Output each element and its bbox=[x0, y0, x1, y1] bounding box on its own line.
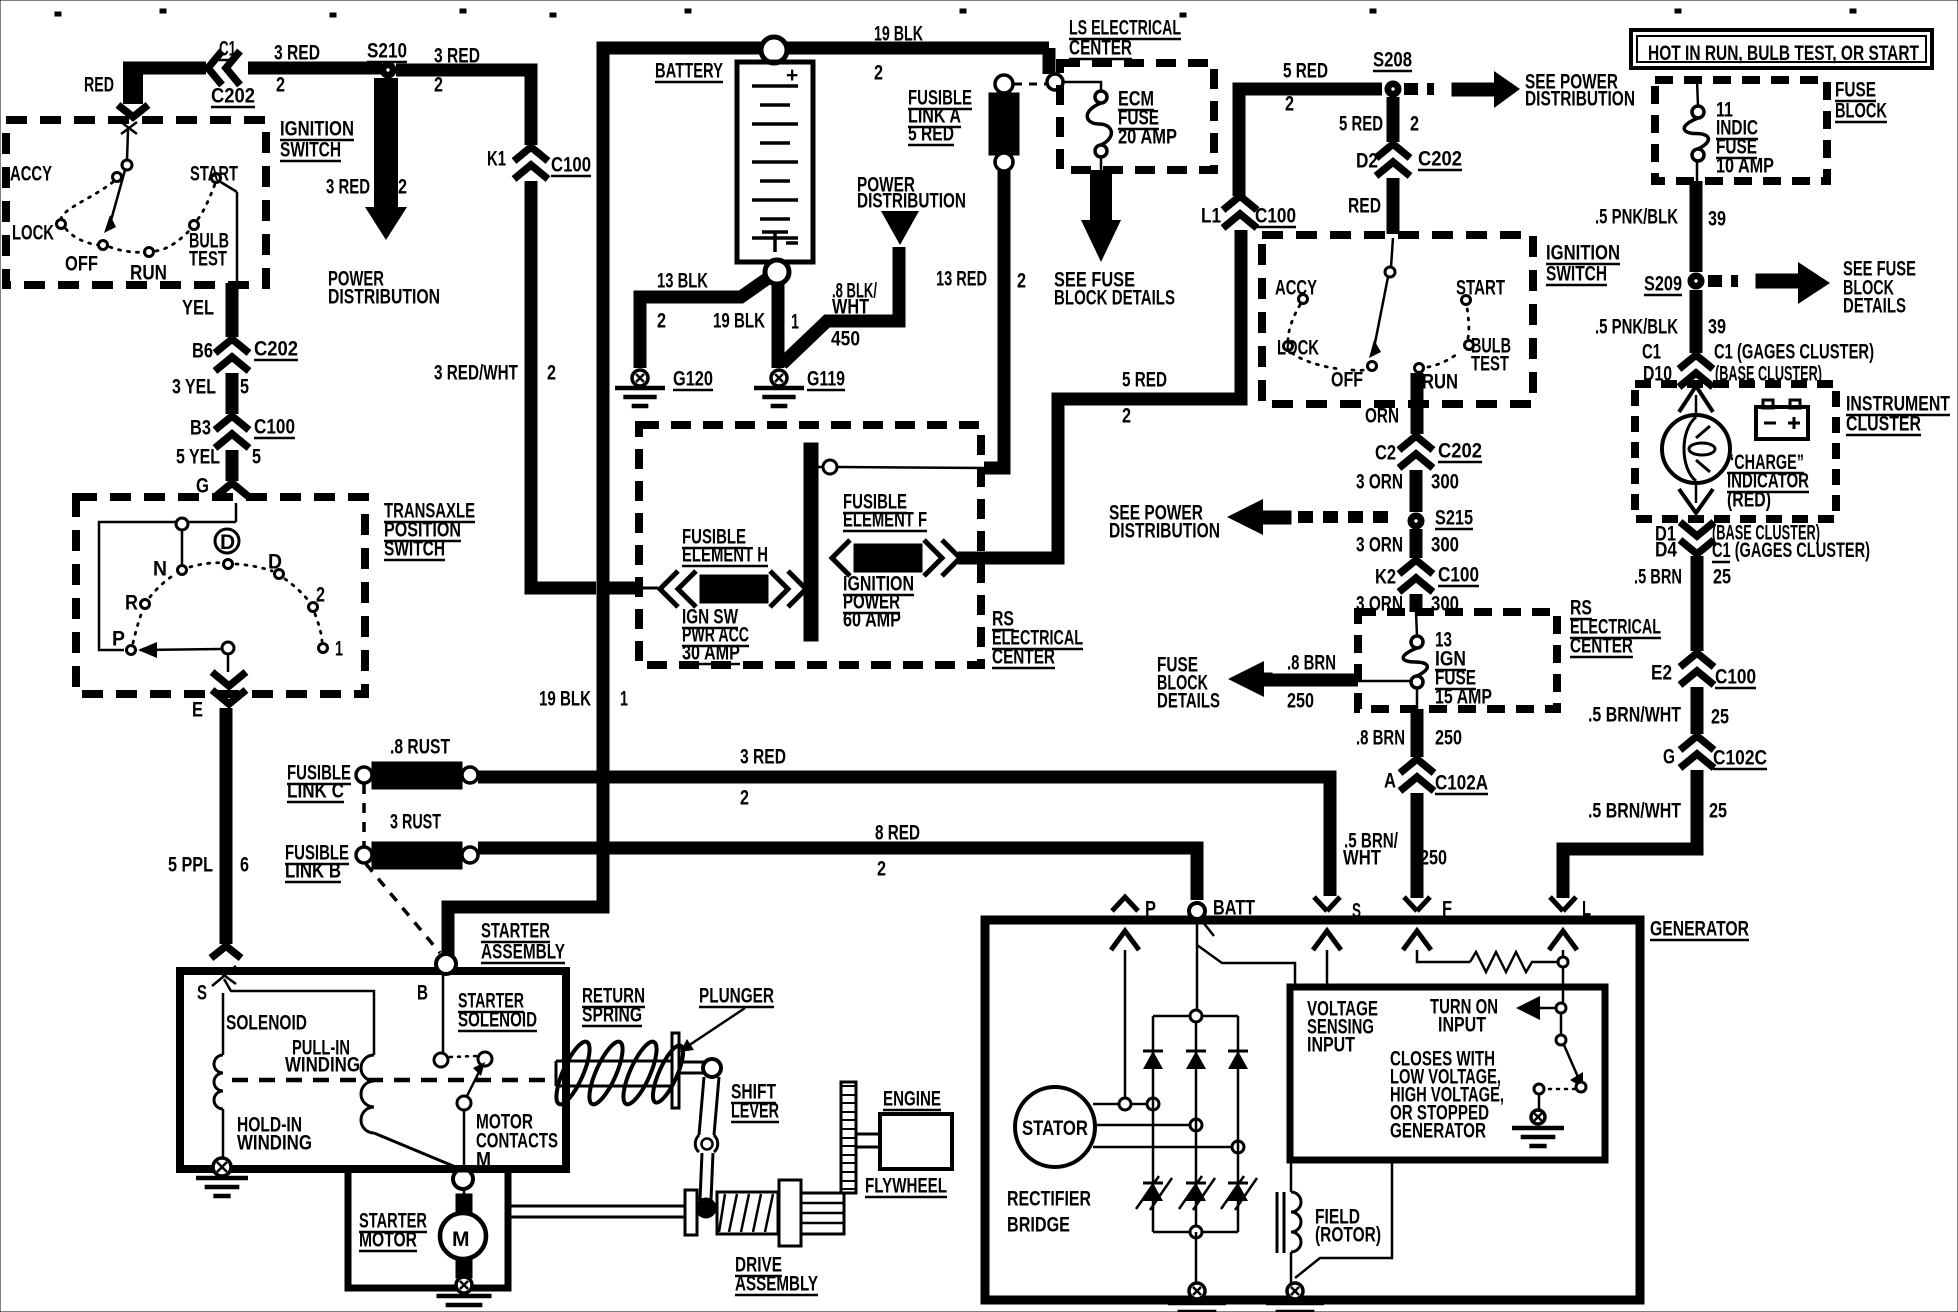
svg-text:C202: C202 bbox=[254, 338, 298, 361]
svg-text:DETAILS: DETAILS bbox=[1157, 690, 1220, 713]
svg-text:M: M bbox=[452, 1228, 470, 1251]
svg-text:20 AMP: 20 AMP bbox=[1118, 126, 1177, 149]
svg-text:GENERATOR: GENERATOR bbox=[1650, 918, 1749, 941]
svg-text:5 RED: 5 RED bbox=[1339, 113, 1383, 136]
label .8 BRN bbox=[1287, 652, 1336, 675]
L terminal lead and junction bbox=[1558, 950, 1568, 1003]
svg-text:GENERATOR: GENERATOR bbox=[1390, 1120, 1486, 1143]
fusible link A symbol bbox=[989, 75, 1019, 171]
svg-text:250: 250 bbox=[1420, 847, 1447, 870]
label 300 bbox=[1431, 534, 1459, 557]
svg-text:G120: G120 bbox=[673, 368, 713, 391]
label 3 ORN bbox=[1356, 471, 1403, 494]
svg-text:PLUNGER: PLUNGER bbox=[699, 985, 774, 1008]
svg-text:MOTOR: MOTOR bbox=[359, 1229, 417, 1252]
svg-text:3 YEL: 3 YEL bbox=[172, 376, 216, 399]
svg-text:C202: C202 bbox=[1418, 148, 1462, 171]
label C2 bbox=[1375, 442, 1396, 465]
generator box bbox=[985, 920, 1640, 1300]
svg-text:S: S bbox=[197, 982, 207, 1005]
label 2 bbox=[657, 310, 666, 333]
label 300 bbox=[1431, 593, 1459, 616]
label 2 bbox=[1410, 113, 1419, 136]
svg-text:(RED): (RED) bbox=[1727, 489, 1771, 512]
dashed stub from S208 bbox=[1404, 83, 1434, 95]
svg-text:2: 2 bbox=[877, 858, 886, 881]
label POWER DISTRIBUTION bbox=[857, 174, 915, 197]
svg-text:E: E bbox=[192, 699, 203, 722]
svg-text:2: 2 bbox=[276, 74, 285, 97]
label .8 RUST bbox=[390, 736, 450, 759]
svg-text:HOT IN RUN, BULB TEST, OR STA: HOT IN RUN, BULB TEST, OR START bbox=[1648, 42, 1919, 65]
label C1 / D10 bbox=[1642, 341, 1661, 364]
label RETURN SPRING bbox=[582, 985, 645, 1008]
dashed wire from fusible link A to LS electrical center bbox=[1014, 83, 1046, 86]
arrow see power distribution (right) bbox=[1452, 71, 1520, 108]
label 3 RED bbox=[434, 45, 480, 68]
label 25 bbox=[1713, 566, 1731, 589]
label SOLENOID bbox=[226, 1012, 307, 1035]
svg-text:B: B bbox=[417, 982, 428, 1005]
transaxle switch arm arrow to P bbox=[138, 642, 234, 658]
svg-text:3 RED/WHT: 3 RED/WHT bbox=[434, 362, 518, 385]
svg-text:OFF: OFF bbox=[1331, 369, 1363, 392]
label G119 bbox=[807, 368, 845, 391]
transaxle switch internal wiring bbox=[99, 503, 236, 650]
rectifier bridge rails bbox=[1153, 1010, 1238, 1282]
label LS ELECTRICAL CENTER bbox=[1069, 17, 1181, 40]
label VOLTAGE SENSING INPUT bbox=[1307, 998, 1378, 1021]
label 2 bbox=[1017, 270, 1026, 293]
svg-text:25: 25 bbox=[1713, 566, 1731, 589]
svg-text:TEST: TEST bbox=[189, 248, 227, 271]
label MOTOR CONTACTS M bbox=[476, 1111, 533, 1134]
terminal circle at LS center feed bbox=[1047, 74, 1063, 90]
solenoid internal feed wires bbox=[223, 979, 374, 1055]
label RUN bbox=[130, 262, 167, 285]
label 2 bbox=[877, 858, 886, 881]
svg-text:300: 300 bbox=[1431, 534, 1459, 557]
label 2 bbox=[316, 584, 325, 607]
label 250 bbox=[1435, 727, 1462, 750]
svg-text:C1 (GAGES CLUSTER): C1 (GAGES CLUSTER) bbox=[1714, 341, 1874, 364]
svg-text:LOCK: LOCK bbox=[1277, 337, 1319, 360]
lead from bus bar to 13 RED wire bbox=[818, 460, 986, 474]
svg-text:.5 BRN/WHT: .5 BRN/WHT bbox=[1588, 800, 1681, 823]
svg-text:K2: K2 bbox=[1375, 566, 1396, 589]
svg-text:ASSEMBLY: ASSEMBLY bbox=[735, 1273, 818, 1296]
label 13 RED bbox=[936, 268, 987, 291]
right ignition switch pivot and arm bbox=[1369, 238, 1395, 358]
label RED bbox=[1348, 195, 1381, 218]
generator S terminal bbox=[1313, 897, 1341, 950]
wire 13 RED from fusible link A to RS electrical center bbox=[984, 171, 1004, 468]
label S210 bbox=[367, 40, 407, 63]
svg-text:RED: RED bbox=[1348, 195, 1381, 218]
label C100 bbox=[551, 154, 591, 177]
svg-text:DETAILS: DETAILS bbox=[1843, 295, 1906, 318]
svg-text:STATOR: STATOR bbox=[1022, 1117, 1088, 1140]
svg-text:30 AMP: 30 AMP bbox=[682, 642, 740, 665]
splice S210 bbox=[380, 62, 396, 78]
svg-text:DISTRIBUTION: DISTRIBUTION bbox=[1109, 520, 1220, 543]
svg-text:FUSE: FUSE bbox=[1835, 79, 1876, 102]
label INSTRUMENT CLUSTER bbox=[1846, 393, 1950, 416]
svg-text:5: 5 bbox=[240, 376, 249, 399]
svg-text:OFF: OFF bbox=[65, 253, 98, 276]
svg-text:250: 250 bbox=[1287, 690, 1314, 713]
pull-in winding coil bbox=[361, 1055, 374, 1133]
starter M terminal circle bbox=[453, 1169, 473, 1189]
svg-text:25: 25 bbox=[1711, 706, 1729, 729]
svg-text:G: G bbox=[1663, 746, 1675, 769]
label D1 / D4 bbox=[1655, 523, 1676, 546]
label DRIVE ASSEMBLY bbox=[735, 1254, 782, 1277]
wire 5 RED from fusible element F to L1 C100 bbox=[958, 230, 1241, 558]
svg-text:3 ORN: 3 ORN bbox=[1356, 534, 1403, 557]
label G bbox=[1663, 746, 1675, 769]
svg-text:BLOCK DETAILS: BLOCK DETAILS bbox=[1054, 287, 1175, 310]
svg-text:RUN: RUN bbox=[130, 262, 167, 285]
label C1 bbox=[219, 38, 236, 61]
label 1 bbox=[620, 688, 628, 711]
wire .8 BRN to fuse block details arrow bbox=[1268, 674, 1358, 687]
label IGN SW PWR ACC 30 AMP bbox=[682, 606, 738, 629]
wire 5 PPL from E to starter S terminal bbox=[220, 708, 233, 944]
fusible link C symbol bbox=[356, 762, 478, 789]
label C202 bbox=[211, 85, 255, 108]
label RS ELECTRICAL CENTER bbox=[992, 608, 1014, 631]
svg-text:(ROTOR): (ROTOR) bbox=[1315, 1224, 1381, 1247]
cluster input chevron bbox=[1679, 386, 1713, 417]
connector B6 C202 bbox=[215, 339, 249, 371]
connector K2 C100 bbox=[1399, 560, 1433, 592]
rectifier diodes top row bbox=[1143, 1051, 1248, 1069]
wire YEL to B6 bbox=[226, 283, 239, 337]
arrow power distribution (battery area) bbox=[881, 211, 919, 245]
label BATT bbox=[1213, 897, 1255, 920]
turn-on input arrow bbox=[1516, 996, 1566, 1020]
svg-text:BRIDGE: BRIDGE bbox=[1007, 1214, 1070, 1237]
svg-text:E2: E2 bbox=[1651, 662, 1672, 685]
svg-text:+: + bbox=[786, 64, 798, 87]
wire RED from ignition switch to connector C1 bbox=[123, 62, 143, 104]
connector K1 C100 bbox=[514, 147, 548, 179]
regulator switch bbox=[1534, 1013, 1586, 1110]
connector D2 C202 bbox=[1376, 144, 1410, 176]
starter motor ground bbox=[437, 1296, 492, 1312]
label K2 bbox=[1375, 566, 1396, 589]
label FUSIBLE ELEMENT F bbox=[843, 491, 907, 514]
IGN fuse symbol bbox=[1416, 612, 1417, 636]
label SEE FUSE BLOCK DETAILS bbox=[1054, 269, 1135, 292]
fusible element F bbox=[832, 540, 960, 576]
transaxle position switch dashed box bbox=[76, 497, 365, 694]
label C100 bbox=[1255, 205, 1296, 228]
arrow to power distribution (down) bbox=[365, 207, 407, 240]
svg-text:.5 PNK/BLK: .5 PNK/BLK bbox=[1595, 206, 1678, 229]
svg-text:SOLENOID: SOLENOID bbox=[458, 1009, 537, 1032]
label .8 BRN bbox=[1356, 727, 1405, 750]
label (BASE CLUSTER) lower bbox=[1712, 522, 1820, 545]
label C1 (GAGES CLUSTER) lower bbox=[1712, 539, 1870, 562]
battery symbol bbox=[737, 62, 813, 262]
svg-text:STARTER: STARTER bbox=[481, 920, 550, 943]
connector C1 C202 bbox=[208, 51, 240, 85]
label 3 YEL bbox=[172, 376, 216, 399]
svg-text:DISTRIBUTION: DISTRIBUTION bbox=[1525, 88, 1635, 111]
splice S209 bbox=[1688, 273, 1704, 289]
svg-text:L: L bbox=[1582, 898, 1591, 921]
label .5 PNK/BLK bbox=[1595, 316, 1678, 339]
svg-text:C202: C202 bbox=[211, 85, 255, 108]
generator internal ground bbox=[1189, 1283, 1205, 1299]
svg-text:1: 1 bbox=[335, 638, 343, 661]
label FLYWHEEL bbox=[865, 1175, 947, 1198]
fuse block dashed box bbox=[1655, 80, 1827, 181]
lead into ECM fuse bbox=[1063, 82, 1101, 91]
svg-text:CENTER: CENTER bbox=[1570, 635, 1633, 658]
svg-text:LINK C: LINK C bbox=[287, 780, 344, 803]
svg-text:5 PPL: 5 PPL bbox=[168, 854, 213, 877]
label 6 bbox=[240, 854, 249, 877]
label FUSIBLE LINK A 5 RED bbox=[908, 87, 972, 110]
svg-text:.8 BRN: .8 BRN bbox=[1287, 652, 1336, 675]
wire from START contact to box exit bbox=[219, 181, 237, 282]
wire 5 RED from L1 up to S208 bbox=[1239, 89, 1382, 196]
svg-text:FLYWHEEL: FLYWHEEL bbox=[865, 1175, 947, 1198]
label FUSE BLOCK DETAILS (middle) bbox=[1157, 654, 1198, 677]
svg-text:SWITCH: SWITCH bbox=[1546, 263, 1607, 286]
label S208 bbox=[1373, 49, 1412, 72]
svg-text:C2: C2 bbox=[1375, 442, 1396, 465]
wire 19 BLK battery to LS electrical center bbox=[786, 42, 1049, 55]
svg-text:13 RED: 13 RED bbox=[936, 268, 987, 291]
svg-text:ACCY: ACCY bbox=[1275, 277, 1317, 300]
field rotor coil bbox=[1277, 1192, 1301, 1253]
connector A C102A bbox=[1400, 759, 1434, 791]
label SEE FUSE BLOCK DETAILS (right) bbox=[1843, 258, 1916, 281]
battery icon in cluster bbox=[1756, 400, 1808, 439]
svg-text:3 RED: 3 RED bbox=[274, 42, 320, 65]
label ACCY (right) bbox=[1275, 277, 1317, 300]
svg-text:WINDING: WINDING bbox=[285, 1054, 360, 1077]
wire 5 RED from S208 down to D2 bbox=[1387, 97, 1400, 142]
svg-text:3 RED: 3 RED bbox=[740, 746, 786, 769]
label 25 bbox=[1709, 800, 1727, 823]
wire RED from D2 to ignition switch bbox=[1387, 178, 1400, 234]
label E2 bbox=[1651, 662, 1672, 685]
svg-text:G119: G119 bbox=[807, 368, 845, 391]
svg-text:LEVER: LEVER bbox=[731, 1100, 779, 1123]
battery positive terminal bbox=[761, 37, 787, 63]
svg-text:S215: S215 bbox=[1435, 507, 1473, 530]
svg-text:WHT: WHT bbox=[832, 296, 869, 319]
label 250 bbox=[1420, 847, 1447, 870]
label 250 bbox=[1287, 690, 1314, 713]
label S (starter) bbox=[197, 982, 207, 1005]
label 2 bbox=[398, 176, 407, 199]
svg-text:P: P bbox=[112, 628, 125, 651]
generator L terminal bbox=[1549, 897, 1577, 950]
label 1 bbox=[791, 311, 799, 334]
lamp output chevron bbox=[1679, 481, 1713, 513]
svg-text:19 BLK: 19 BLK bbox=[539, 688, 591, 711]
svg-text:5 RED: 5 RED bbox=[908, 123, 954, 146]
wire 3 ORN S215 to K2 bbox=[1410, 529, 1423, 558]
svg-text:IGNITION: IGNITION bbox=[280, 118, 354, 141]
label 11 INDIC FUSE 10 AMP bbox=[1716, 99, 1733, 122]
label IGNITION SWITCH (right) bbox=[1546, 242, 1620, 265]
svg-text:WHT: WHT bbox=[1343, 847, 1381, 870]
label .5 BRN bbox=[1634, 566, 1682, 589]
splice S215 bbox=[1408, 513, 1424, 529]
label RS ELECTRICAL CENTER (right) bbox=[1570, 597, 1592, 620]
label 5 PPL bbox=[168, 854, 213, 877]
label FUSIBLE LINK C bbox=[287, 762, 351, 785]
svg-text:2: 2 bbox=[1410, 113, 1419, 136]
svg-text:ELEMENT H: ELEMENT H bbox=[682, 544, 768, 567]
label S (generator) bbox=[1352, 900, 1361, 923]
wire 3 YEL bbox=[226, 373, 239, 414]
wire 3 ORN K2 to RS electrical center bbox=[1410, 594, 1423, 612]
HOT IN RUN box bbox=[1631, 30, 1932, 68]
label STARTER MOTOR bbox=[359, 1210, 427, 1233]
starter motor box bbox=[348, 1169, 508, 1288]
label C202 bbox=[1438, 440, 1482, 463]
wire .5 BRN/WHT from A to generator F terminal bbox=[1411, 793, 1424, 898]
svg-text:6: 6 bbox=[240, 854, 249, 877]
label G bbox=[196, 475, 209, 498]
label SEE POWER DISTRIBUTION bbox=[1525, 71, 1618, 94]
svg-text:15 AMP: 15 AMP bbox=[1435, 686, 1492, 709]
svg-text:2: 2 bbox=[1285, 93, 1294, 116]
P terminal lead to stator phase bbox=[1119, 950, 1131, 1110]
wire .5 BRN/WHT E2 to G C102C bbox=[1691, 687, 1704, 734]
label BULB TEST bbox=[189, 230, 229, 253]
label C100 bbox=[1715, 666, 1756, 689]
label 13 IGN FUSE 15 AMP bbox=[1435, 629, 1452, 652]
svg-text:SPRING: SPRING bbox=[582, 1004, 642, 1027]
instrument cluster dashed box bbox=[1635, 384, 1836, 519]
label 5 YEL bbox=[176, 446, 220, 469]
svg-text:B3: B3 bbox=[190, 417, 211, 440]
label C102A bbox=[1435, 772, 1488, 795]
label 5 RED bbox=[1339, 113, 1383, 136]
label 300 bbox=[1431, 471, 1459, 494]
starter motor ground terminal bbox=[456, 1277, 472, 1293]
ground G120 bbox=[632, 370, 648, 386]
charge indicator lamp bbox=[1662, 415, 1730, 483]
svg-text:C102C: C102C bbox=[1713, 747, 1767, 770]
label 39 bbox=[1708, 208, 1726, 231]
label L bbox=[1582, 898, 1591, 921]
svg-text:S: S bbox=[1352, 900, 1361, 923]
label 25 bbox=[1711, 706, 1729, 729]
svg-text:YEL: YEL bbox=[182, 297, 214, 320]
svg-text:2: 2 bbox=[740, 787, 749, 810]
INDIC fuse symbol bbox=[1697, 80, 1698, 106]
wire 19 BLK to ground G119 bbox=[772, 283, 785, 368]
wire .5 BRN from D1 to E2 bbox=[1691, 556, 1704, 651]
label 3 RUST bbox=[390, 811, 441, 834]
svg-text:C100: C100 bbox=[1438, 564, 1479, 587]
connector E (down) bbox=[212, 672, 246, 704]
svg-text:BATT: BATT bbox=[1213, 897, 1255, 920]
transaxle contacts and dotted arc bbox=[127, 560, 328, 655]
wire .5 BRN/WHT G to generator L terminal bbox=[1563, 770, 1697, 898]
svg-text:ASSEMBLY: ASSEMBLY bbox=[481, 941, 565, 964]
svg-text:10 AMP: 10 AMP bbox=[1716, 155, 1774, 178]
voltage regulator box bbox=[1290, 987, 1605, 1160]
label 1 bbox=[335, 638, 343, 661]
battery negative terminal bbox=[765, 260, 789, 284]
label FUSIBLE ELEMENT H bbox=[682, 526, 746, 549]
svg-text:S208: S208 bbox=[1373, 49, 1412, 72]
arrow see fuse block details (right) bbox=[1756, 262, 1830, 304]
svg-text:C1: C1 bbox=[1642, 341, 1661, 364]
label .5 BRN/WHT bbox=[1588, 800, 1681, 823]
splice S208 bbox=[1385, 81, 1401, 97]
label 3 ORN bbox=[1356, 534, 1403, 557]
svg-text:5 RED: 5 RED bbox=[1122, 369, 1167, 392]
flywheel bbox=[841, 1082, 856, 1193]
label 3 RED bbox=[740, 746, 786, 769]
svg-text:N: N bbox=[153, 558, 167, 581]
svg-text:P: P bbox=[1145, 898, 1156, 921]
motor contacts bbox=[434, 974, 492, 1170]
fusible element H bbox=[640, 571, 806, 607]
label G120 bbox=[673, 368, 713, 391]
wire S210 drop to power distribution arrow bbox=[374, 78, 398, 207]
label ORN bbox=[1365, 405, 1399, 428]
resistor bbox=[1470, 952, 1557, 972]
svg-text:BATTERY: BATTERY bbox=[655, 60, 723, 83]
svg-text:ACCY: ACCY bbox=[10, 163, 52, 186]
svg-text:C102A: C102A bbox=[1435, 772, 1488, 795]
svg-text:1: 1 bbox=[791, 311, 799, 334]
svg-text:D: D bbox=[268, 551, 282, 574]
label C100 bbox=[1438, 564, 1479, 587]
svg-text:2: 2 bbox=[316, 584, 325, 607]
svg-text:C100: C100 bbox=[551, 154, 591, 177]
label 2 bbox=[547, 362, 556, 385]
wire 3 RED/WHT from K1 down to RS electrical center bbox=[531, 181, 596, 588]
ignition switch contact dots and dotted arc bbox=[57, 173, 221, 257]
label B3 bbox=[190, 417, 211, 440]
label 3 RED/WHT bbox=[434, 362, 518, 385]
label RECTIFIER BRIDGE bbox=[1007, 1188, 1091, 1211]
svg-text:ELEMENT F: ELEMENT F bbox=[843, 509, 927, 532]
svg-text:D2: D2 bbox=[1356, 150, 1378, 173]
label BATTERY bbox=[655, 60, 723, 83]
svg-text:TEST: TEST bbox=[1471, 353, 1509, 376]
svg-text:.5 PNK/BLK: .5 PNK/BLK bbox=[1595, 316, 1678, 339]
label FIELD (ROTOR) bbox=[1315, 1206, 1360, 1229]
svg-text:5 RED: 5 RED bbox=[1283, 60, 1328, 83]
return spring and plunger bbox=[550, 1033, 689, 1108]
label D bbox=[268, 551, 282, 574]
label 2 bbox=[874, 62, 883, 85]
label TURN ON INPUT bbox=[1430, 996, 1498, 1019]
connector C2 C202 bbox=[1399, 436, 1433, 468]
engine box bbox=[880, 1114, 952, 1169]
svg-text:60 AMP: 60 AMP bbox=[843, 609, 901, 632]
fusible link B symbol bbox=[356, 842, 478, 869]
svg-text:D: D bbox=[220, 531, 235, 554]
wire .8 BLK/WHT to power distribution bbox=[782, 247, 899, 364]
starter motor shaft bbox=[508, 1206, 686, 1217]
